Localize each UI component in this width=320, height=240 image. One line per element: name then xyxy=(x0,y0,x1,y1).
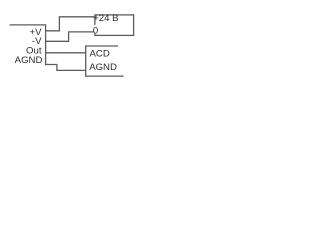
terminal box X1 (+24 B / 0) xyxy=(95,15,134,36)
svg-text:AGND: AGND xyxy=(89,62,117,73)
device box U1 (left, partially cropped) xyxy=(10,25,46,65)
svg-text:+24 B: +24 B xyxy=(93,13,118,24)
svg-text:ACD: ACD xyxy=(90,48,110,59)
wire -V to 0 xyxy=(46,32,95,41)
svg-text:0: 0 xyxy=(93,25,98,36)
wire +V to +24 B xyxy=(46,17,95,31)
terminal box X2 (ACD / AGND, right side cropped) xyxy=(86,46,124,76)
wire AGND to AGND xyxy=(46,65,86,71)
wire Out to ACD xyxy=(46,52,86,54)
svg-text:AGND: AGND xyxy=(15,55,43,66)
label 0 background xyxy=(94,25,99,33)
